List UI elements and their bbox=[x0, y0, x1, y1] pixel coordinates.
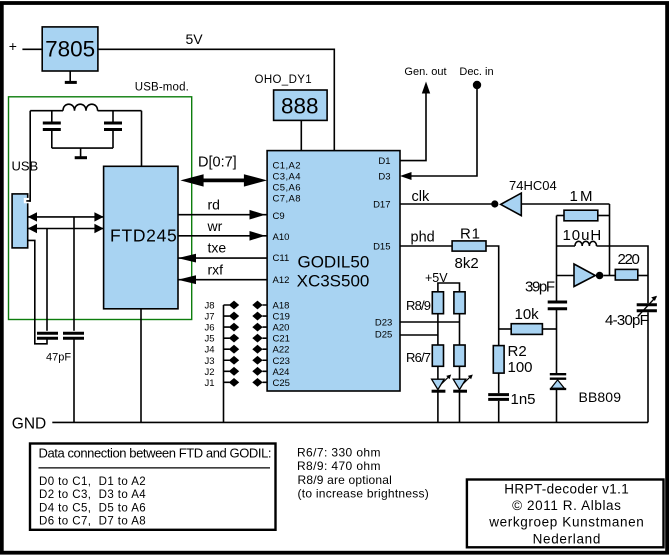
svg-text:A24: A24 bbox=[273, 367, 290, 378]
svg-text:Gen. out: Gen. out bbox=[404, 66, 446, 78]
svg-text:werkgroep Kunstmanen: werkgroep Kunstmanen bbox=[488, 514, 644, 529]
svg-text:4-30pF: 4-30pF bbox=[605, 312, 649, 329]
svg-text:wr: wr bbox=[207, 218, 223, 234]
svg-text:GODIL50: GODIL50 bbox=[297, 253, 369, 272]
svg-text:D3: D3 bbox=[378, 172, 390, 183]
svg-text:C5,A6: C5,A6 bbox=[273, 182, 301, 193]
svg-text:OHO_DY1: OHO_DY1 bbox=[255, 74, 312, 86]
svg-text:A22: A22 bbox=[273, 345, 290, 356]
svg-text:7805: 7805 bbox=[45, 37, 95, 62]
svg-text:C23: C23 bbox=[273, 356, 290, 367]
svg-text:R2: R2 bbox=[508, 343, 527, 360]
svg-text:Data connection between FTD an: Data connection between FTD and GODIL: bbox=[39, 446, 272, 461]
svg-text:J7: J7 bbox=[204, 312, 214, 323]
svg-text:J1: J1 bbox=[204, 378, 214, 389]
svg-text:C21: C21 bbox=[273, 334, 290, 345]
svg-text:D[0:7]: D[0:7] bbox=[198, 155, 237, 171]
svg-text:txe: txe bbox=[208, 240, 227, 256]
svg-text:R8/9: R8/9 bbox=[406, 298, 431, 313]
svg-text:8k2: 8k2 bbox=[455, 255, 479, 272]
svg-text:C7,A8: C7,A8 bbox=[273, 193, 301, 204]
svg-text:R6/7: R6/7 bbox=[406, 350, 431, 365]
svg-text:USB: USB bbox=[12, 159, 39, 174]
svg-text:J8: J8 bbox=[204, 301, 214, 312]
svg-text:J4: J4 bbox=[204, 345, 214, 356]
svg-text:XC3S500: XC3S500 bbox=[297, 272, 370, 291]
svg-text:100: 100 bbox=[508, 359, 533, 376]
svg-text:Nederland: Nederland bbox=[533, 531, 601, 546]
svg-text:D1: D1 bbox=[378, 156, 390, 167]
svg-text:A12: A12 bbox=[273, 275, 290, 286]
svg-text:USB-mod.: USB-mod. bbox=[135, 81, 189, 93]
svg-text:FTD245: FTD245 bbox=[110, 225, 177, 245]
svg-text:rxf: rxf bbox=[208, 262, 224, 278]
svg-text:A18: A18 bbox=[273, 301, 290, 312]
svg-text:C1,A2: C1,A2 bbox=[273, 160, 301, 171]
svg-text:rd: rd bbox=[208, 197, 220, 213]
svg-text:J3: J3 bbox=[204, 356, 214, 367]
svg-text:C11: C11 bbox=[273, 253, 290, 264]
svg-text:Dec. in: Dec. in bbox=[459, 66, 493, 78]
svg-text:R1: R1 bbox=[460, 226, 480, 243]
svg-text:D4 to C5, D5 to A6: D4 to C5, D5 to A6 bbox=[39, 502, 146, 514]
svg-text:clk: clk bbox=[412, 189, 430, 205]
svg-text:phd: phd bbox=[411, 230, 435, 246]
svg-text:D23: D23 bbox=[375, 318, 392, 329]
svg-text:R8/9 are optional: R8/9 are optional bbox=[298, 473, 392, 487]
svg-text:A20: A20 bbox=[273, 323, 290, 334]
svg-text:1M: 1M bbox=[570, 188, 593, 205]
svg-text:C3,A4: C3,A4 bbox=[273, 171, 301, 182]
svg-text:J6: J6 bbox=[204, 323, 214, 334]
svg-text:+: + bbox=[9, 38, 17, 54]
svg-text:C25: C25 bbox=[273, 378, 290, 389]
svg-text:R8/9: 470 ohm: R8/9: 470 ohm bbox=[297, 459, 381, 473]
svg-text:D17: D17 bbox=[373, 200, 390, 211]
svg-text:220: 220 bbox=[618, 251, 640, 268]
svg-text:D0 to C1, D1 to A2: D0 to C1, D1 to A2 bbox=[39, 476, 146, 488]
svg-text:© 2011 R. Alblas: © 2011 R. Alblas bbox=[512, 498, 621, 513]
svg-text:D15: D15 bbox=[373, 241, 390, 252]
svg-text:1n5: 1n5 bbox=[511, 391, 536, 408]
svg-text:39pF: 39pF bbox=[525, 278, 555, 295]
svg-text:888: 888 bbox=[281, 94, 319, 119]
svg-text:HRPT-decoder v1.1: HRPT-decoder v1.1 bbox=[504, 481, 629, 496]
svg-text:10uH: 10uH bbox=[563, 227, 602, 244]
svg-text:D6 to C7, D7 to A8: D6 to C7, D7 to A8 bbox=[39, 516, 146, 528]
svg-text:74HC04: 74HC04 bbox=[509, 178, 557, 193]
svg-text:J2: J2 bbox=[204, 367, 214, 378]
svg-text:10k: 10k bbox=[515, 306, 540, 323]
svg-text:D2 to C3, D3 to A4: D2 to C3, D3 to A4 bbox=[39, 489, 146, 501]
svg-text:(to increase brightness): (to increase brightness) bbox=[298, 486, 429, 500]
svg-text:J5: J5 bbox=[204, 334, 214, 345]
svg-text:R6/7: 330 ohm: R6/7: 330 ohm bbox=[297, 446, 381, 460]
svg-text:D25: D25 bbox=[375, 330, 392, 341]
svg-text:47pF: 47pF bbox=[46, 352, 71, 364]
svg-text:C19: C19 bbox=[273, 312, 290, 323]
svg-text:A10: A10 bbox=[273, 232, 290, 243]
svg-text:5V: 5V bbox=[186, 31, 204, 47]
svg-text:BB809: BB809 bbox=[579, 389, 622, 405]
svg-text:C9: C9 bbox=[273, 211, 285, 222]
svg-text:GND: GND bbox=[12, 415, 46, 432]
svg-text:+5V: +5V bbox=[425, 271, 448, 285]
